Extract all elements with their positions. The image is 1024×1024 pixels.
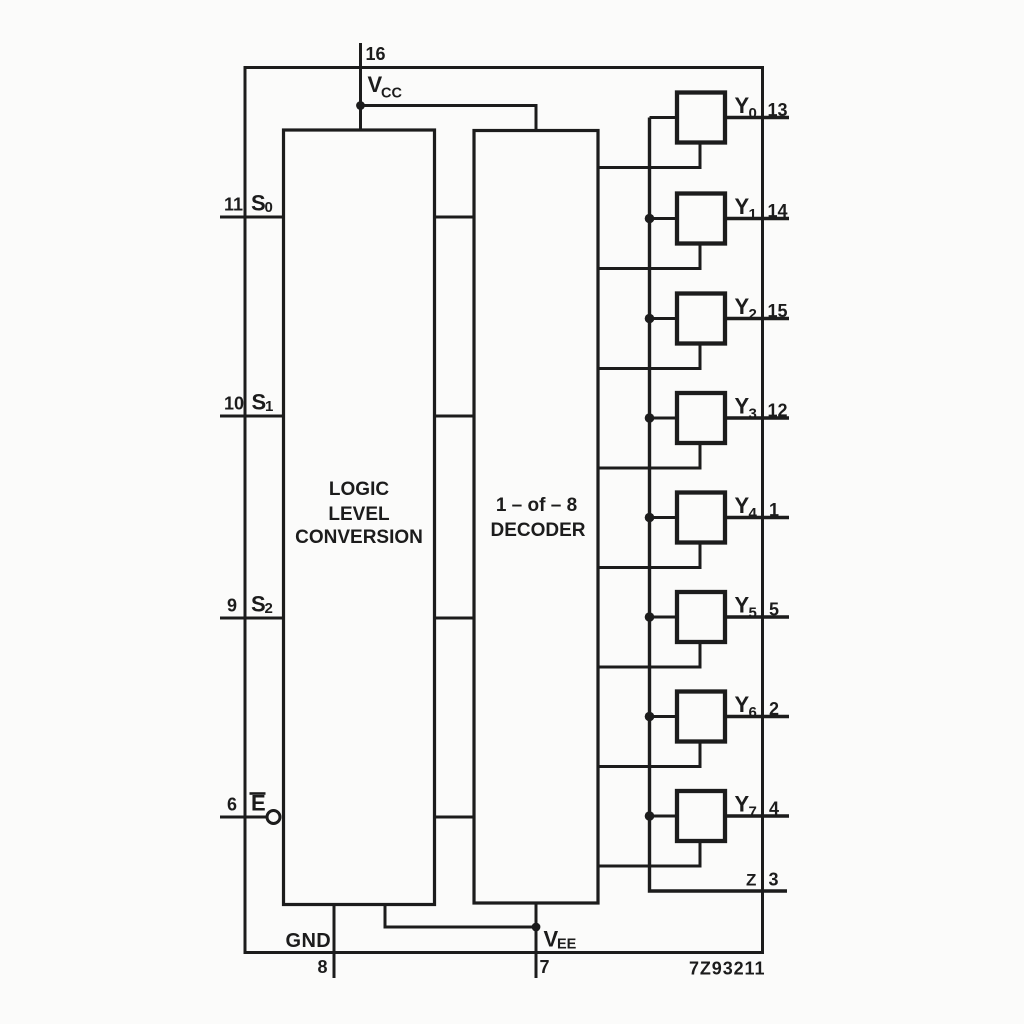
svg-text:0: 0 (265, 199, 273, 216)
svg-text:4: 4 (749, 505, 758, 522)
svg-text:DECODER: DECODER (490, 520, 585, 541)
svg-text:S: S (251, 191, 266, 216)
svg-text:2: 2 (749, 306, 757, 323)
svg-text:1 – of – 8: 1 – of – 8 (496, 495, 577, 516)
svg-text:Z: Z (746, 871, 756, 890)
svg-text:Y: Y (735, 792, 750, 817)
svg-text:E: E (251, 791, 266, 816)
svg-text:3: 3 (749, 406, 757, 423)
svg-text:Y: Y (735, 194, 750, 219)
svg-text:0: 0 (749, 105, 757, 122)
svg-text:CC: CC (381, 86, 402, 102)
svg-text:1: 1 (769, 500, 779, 520)
svg-text:LOGIC: LOGIC (329, 479, 389, 500)
svg-text:Y: Y (735, 394, 750, 419)
svg-text:Y: Y (735, 294, 750, 319)
svg-text:14: 14 (768, 201, 788, 221)
svg-text:7Z93211: 7Z93211 (689, 959, 765, 979)
svg-text:13: 13 (768, 100, 788, 120)
svg-text:GND: GND (286, 930, 332, 952)
svg-text:7: 7 (540, 957, 550, 977)
svg-text:7: 7 (749, 804, 757, 821)
svg-text:9: 9 (227, 596, 237, 616)
svg-text:6: 6 (227, 795, 237, 815)
svg-text:S: S (252, 390, 267, 415)
svg-text:16: 16 (366, 44, 386, 64)
svg-text:2: 2 (769, 699, 779, 719)
svg-text:12: 12 (768, 401, 788, 421)
svg-text:Y: Y (735, 692, 750, 717)
svg-text:S: S (251, 592, 266, 617)
svg-text:1: 1 (265, 398, 273, 415)
svg-text:5: 5 (769, 600, 779, 620)
svg-text:Y: Y (735, 93, 750, 118)
svg-text:3: 3 (769, 870, 779, 890)
svg-text:11: 11 (224, 195, 243, 215)
svg-text:6: 6 (749, 704, 757, 721)
svg-text:8: 8 (318, 957, 328, 977)
svg-text:LEVEL: LEVEL (328, 504, 390, 525)
svg-text:EE: EE (557, 937, 577, 953)
svg-text:CONVERSION: CONVERSION (295, 527, 423, 548)
svg-text:2: 2 (265, 600, 273, 617)
svg-text:1: 1 (749, 206, 757, 223)
svg-text:4: 4 (769, 799, 779, 819)
svg-text:Y: Y (735, 593, 750, 618)
svg-text:15: 15 (768, 301, 788, 321)
svg-text:5: 5 (749, 605, 757, 622)
svg-text:Y: Y (735, 493, 750, 518)
svg-text:10: 10 (224, 394, 244, 414)
